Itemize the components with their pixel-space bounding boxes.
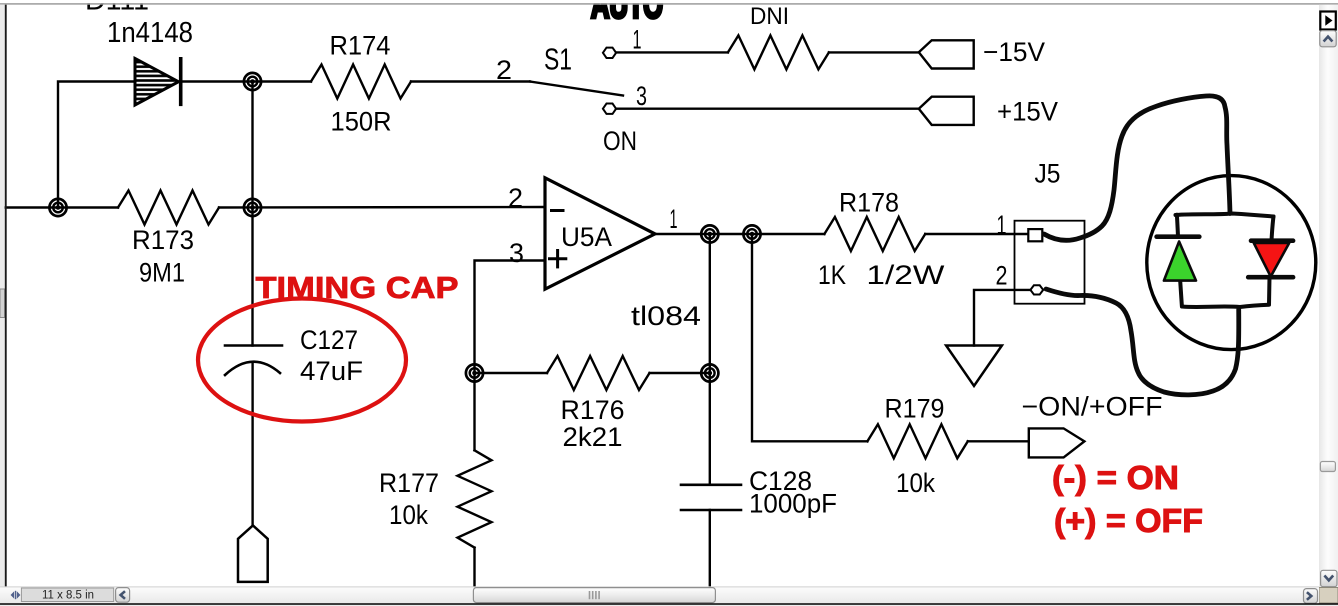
wire: left bend up to diode row [58,82,135,208]
scroll left button [116,588,130,603]
ground symbol (triangle) [946,346,1002,386]
wire: C127 to ground pin [251,363,253,526]
vertical scrollbar expand button [1320,12,1336,30]
LED green (triangle up) [1164,242,1196,281]
annotation marker wire from J5 pin2 (bottom loop) [1046,289,1239,395]
net flag -ON/+OFF [1029,428,1085,457]
ground pin pentagon [238,525,268,582]
svg-text:J5: J5 [1035,159,1061,189]
svg-text:10k: 10k [896,468,935,498]
node: output junction 2 [743,225,760,242]
svg-text:TIMING CAP: TIMING CAP [256,270,459,305]
svg-text:R179: R179 [885,394,945,424]
schematic sheet left border line [5,5,7,587]
svg-text:2: 2 [508,183,523,213]
svg-text:1K: 1K [818,260,846,290]
LED red (triangle down) [1254,243,1289,277]
svg-text:11 x 8.5 in: 11 x 8.5 in [42,589,94,601]
svg-text:(-) = ON: (-) = ON [1052,459,1179,496]
scrollbar corner box [1319,588,1338,604]
svg-text:−15V: −15V [983,37,1045,67]
switch S1 blade [530,82,623,96]
op-amp plus input mark [550,251,566,267]
resistor DNI [728,35,829,69]
resistor R176 [547,356,650,390]
LED red cathode bar [1248,275,1293,280]
op-amp minus input mark [552,209,564,212]
wire: R173 to op-amp pin 2 [219,206,545,209]
svg-text:150R: 150R [331,107,392,137]
connector J5 pin 2 [1030,285,1043,294]
node: junction R173 row [244,199,261,216]
svg-text:+15V: +15V [997,97,1058,127]
svg-text:DNI: DNI [750,3,789,30]
svg-text:R178: R178 [839,188,899,218]
connector J5 pin 1 [1028,229,1042,241]
scroll right button [1304,589,1318,604]
resistor R179 [867,424,967,458]
switch S1 pin 3 [603,104,616,114]
annotation marker wire from J5 pin1 (top) [1044,96,1230,240]
svg-text:R176: R176 [561,395,625,425]
vertical scrollbar up button [1320,31,1336,47]
wire: R178 to J5 pin 1 [925,233,1029,235]
node: output junction 1 [701,225,718,242]
status resize icon [11,591,21,599]
wire: output node down to R176/C128 [709,234,711,485]
wire: J5 pin 2 to ground [974,290,1030,346]
status box 11 x 8.5 in [21,588,113,602]
LED green cathode bar [1157,234,1200,239]
power flag +15V [919,97,974,125]
wire: second node down then to R179 [752,234,867,441]
horizontal scrollbar track [0,586,1319,603]
svg-text:10k: 10k [389,500,428,530]
wire: node down to R177 [473,373,475,450]
resistor R177 [458,450,492,547]
capacitor C127 47uF [225,346,282,376]
wire: node column to C127 [251,82,253,346]
svg-text:47uF: 47uF [300,356,363,386]
svg-text:2: 2 [496,55,512,85]
vertical scrollbar down button [1321,570,1337,586]
LED red anode bar [1251,238,1293,243]
wire: DNI to -15V flag [829,51,919,53]
left panel edge strip [0,5,5,587]
svg-text:1: 1 [633,25,642,55]
svg-text:1: 1 [670,204,678,234]
svg-text:3: 3 [509,238,524,268]
svg-text:R174: R174 [330,31,391,61]
vertical scrollbar track [1319,5,1338,588]
resistor R174 [311,65,411,99]
svg-text:1: 1 [997,210,1007,240]
wire: pin3 node to R176 [475,372,548,374]
svg-text:1000pF: 1000pF [749,489,837,519]
wire: diode cathode to node [182,80,311,82]
svg-text:2: 2 [996,261,1008,291]
vertical scrollbar thumb [1320,462,1335,472]
node: feedback junction left [466,364,483,381]
wire: op-amp output to R178 [655,233,824,235]
resistor R173 [118,191,219,225]
svg-text:R177: R177 [379,468,439,498]
switch S1 pin 1 [603,48,616,58]
annotation red ellipse around C127 [198,299,406,422]
connector J5 body [1015,221,1085,304]
power flag -15V [919,40,974,68]
window top grey border line [0,3,1338,5]
wire: op-amp pin 3 feedback [475,261,546,374]
wire: R179 to flag [968,440,1029,442]
svg-text:1n4148: 1n4148 [107,17,193,49]
diode D111 (1n4148) [135,59,181,106]
svg-text:ON: ON [603,126,637,156]
svg-text:R173: R173 [132,225,194,255]
wire: left edge to node A [6,206,119,208]
wire: R174 to switch blade [411,80,530,82]
node: junction left [49,199,66,216]
capacitor C128 1000pF [681,485,741,510]
horizontal scrollbar thumb [473,588,715,603]
svg-text:−ON/+OFF: −ON/+OFF [1022,392,1163,422]
svg-text:tl084: tl084 [631,301,701,331]
node: junction diode row [244,73,261,90]
resistor R178 [824,217,925,251]
op-amp U5A [545,178,655,289]
wire: S1 pin3 to +15V flag [616,107,919,109]
svg-text:(+) = OFF: (+) = OFF [1054,502,1203,539]
svg-text:3: 3 [636,81,647,111]
svg-text:9M1: 9M1 [139,258,185,288]
annotation hand-drawn circle (LED lens) [1147,176,1316,350]
svg-text:S1: S1 [544,42,572,77]
window top white strip [0,0,1338,3]
svg-text:1/2W: 1/2W [866,260,945,290]
left panel grip [0,289,5,318]
annotation inner wiring square [1176,214,1274,308]
node: feedback junction right [701,364,718,381]
svg-text:U5A: U5A [561,222,612,252]
wire: R177 bottom (clipped) [473,548,475,587]
wire: C128 bottom (clipped) [709,510,711,587]
svg-text:C127: C127 [300,325,358,355]
window bottom border [0,603,1338,605]
wire: S1 pin1 to DNI resistor [616,51,728,53]
svg-text:2k21: 2k21 [563,422,623,452]
